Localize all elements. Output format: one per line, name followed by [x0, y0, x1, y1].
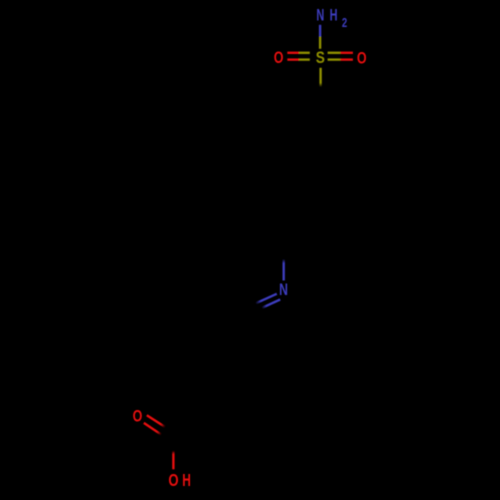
bond C-OH (O side, fades up) — [172, 451, 174, 470]
svg-text:H: H — [182, 470, 191, 490]
svg-text:S: S — [316, 48, 325, 67]
amine nitrogen NH2 label — [316, 7, 347, 30]
svg-text:2: 2 — [342, 15, 347, 30]
bond N-S lower half (S side) — [319, 37, 321, 49]
C=N double bond line 2 (N half, fades) — [262, 300, 280, 308]
bond C-N half (N side, fades up to carbon) — [283, 259, 285, 281]
svg-text:O: O — [274, 48, 284, 67]
svg-text:N: N — [316, 7, 324, 25]
svg-text:H: H — [330, 7, 338, 25]
C=N double bond line 1 (N half, fades) — [256, 294, 277, 304]
svg-text:N: N — [279, 280, 288, 299]
C=O double bond line 2 (O half, fades) — [144, 423, 162, 435]
svg-text:O: O — [357, 48, 367, 67]
bond N-S upper half (N side) — [319, 25, 321, 37]
S=O left double bond, S half — [299, 53, 310, 60]
S=O right double bond, O half — [340, 53, 353, 60]
bond S-C upper half (S side, fades to carbon) — [319, 68, 321, 87]
C=O double bond line 1 (O half, fades) — [147, 415, 166, 427]
hydroxyl OH label — [168, 470, 190, 490]
svg-text:O: O — [133, 406, 143, 425]
S=O right double bond, S half — [328, 53, 341, 60]
svg-text:O: O — [168, 470, 178, 490]
S=O left double bond, O half — [287, 53, 299, 60]
